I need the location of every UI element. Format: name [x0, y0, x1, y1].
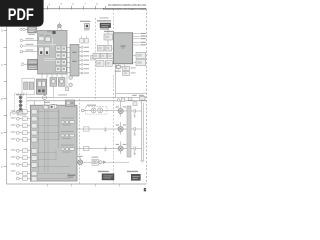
- cap C11: [24, 82, 28, 89]
- connector base box: [17, 111, 26, 115]
- output transistor Q602: [116, 122, 127, 135]
- IC2 pin stub wires: [67, 47, 81, 73]
- bus wire: [27, 97, 147, 99]
- IC501 top small parts: [52, 104, 57, 108]
- IC501 part number text: [68, 175, 76, 176]
- section divider (dashed): [113, 75, 115, 184]
- IC2 pin terminals: [81, 46, 83, 74]
- cap C12: [29, 82, 33, 89]
- speaker out terminals group A: [16, 110, 30, 114]
- svg-text:C: C: [1, 64, 3, 67]
- buffer U603: [105, 45, 112, 51]
- buffer U608: [105, 61, 112, 67]
- IC3 on top of IC1: [58, 22, 62, 30]
- driver group row 1: [61, 118, 74, 126]
- IC1 pin1 mark: [52, 31, 55, 34]
- ground: [133, 131, 136, 135]
- svg-text:D: D: [1, 98, 3, 101]
- wire row 3: [77, 148, 118, 150]
- wire Q10 to bus: [52, 86, 54, 97]
- section divider (dashed): [79, 99, 81, 184]
- label TO MAIN(1/2) left: [98, 171, 114, 180]
- mid cap: [104, 147, 106, 152]
- transistor Q621: [99, 161, 102, 164]
- buffer U602: [97, 45, 104, 51]
- memory IC602: [133, 52, 146, 58]
- jack block J7: [56, 66, 61, 71]
- transistor Q620: [77, 156, 83, 165]
- memory IC603: [133, 60, 146, 66]
- jack block J4: [61, 53, 66, 58]
- diode D5: [66, 87, 69, 91]
- transistor Q12: [69, 76, 73, 87]
- connector CN6 (dashed): [10, 93, 26, 116]
- jack block J5: [56, 60, 61, 65]
- IC501 internal wiring: [37, 105, 74, 179]
- pot VR2: [98, 108, 103, 113]
- speaker out terminal row 10: [16, 176, 30, 180]
- IC601 right pin wires: [133, 34, 140, 45]
- IC1 internal label: [47, 31, 52, 32]
- terminal net labels: [11, 110, 16, 171]
- audio block U4 outline: [22, 78, 34, 95]
- filter FL2: [28, 59, 38, 64]
- cap C602: [131, 127, 142, 131]
- fuse F1: [43, 93, 47, 100]
- page number: [144, 188, 146, 191]
- wire: [77, 161, 129, 163]
- relay RY620: [92, 157, 99, 166]
- IC501 left pad column: [31, 109, 37, 181]
- buffer U605: [100, 53, 106, 58]
- resistor R612: [84, 146, 89, 150]
- buffer U606: [107, 53, 113, 58]
- IC1 internal traces: [44, 38, 56, 61]
- IC501 top edge module: [65, 100, 74, 106]
- svg-text:RX-V463/HTR-6140/DSP-AX463 SCH: RX-V463/HTR-6140/DSP-AX463 SCHEMATIC DIA…: [103, 7, 146, 11]
- bottom row: standby circuit: [0, 0, 146, 191]
- IC1 main block: [38, 30, 67, 74]
- connector CN1 input row: [20, 26, 38, 35]
- IC2 pin net labels: [84, 47, 89, 74]
- regulator Q10: [50, 78, 57, 87]
- aux terminal: [13, 112, 16, 115]
- input comp: [81, 109, 84, 112]
- wire: [36, 29, 37, 32]
- section divider (dashed): [95, 18, 97, 99]
- wire: [24, 62, 28, 67]
- wire drops below IC1: [42, 74, 67, 90]
- relay RY2: [45, 47, 50, 55]
- IC501 top cluster: [44, 106, 48, 109]
- regulator Q11: [58, 78, 65, 87]
- input jack row 5: [21, 59, 37, 69]
- IC1 internal block: [39, 36, 44, 40]
- buffer U604: [93, 53, 99, 58]
- cap C603: [131, 147, 142, 151]
- jack block J6: [61, 60, 66, 65]
- pin chain: [20, 96, 22, 111]
- transformer T1: [36, 79, 46, 94]
- jack block J1: [56, 46, 61, 51]
- frame bottom border: [7, 183, 147, 185]
- wire: [23, 51, 38, 53]
- IC2 column block: [70, 44, 79, 76]
- frame left border: [6, 9, 8, 184]
- filter FL3: [28, 65, 38, 70]
- jack block J3: [56, 53, 61, 58]
- driver group row 3: [61, 145, 74, 153]
- cap C21: [80, 38, 84, 43]
- buffer U607: [96, 61, 104, 67]
- rail top components: [133, 102, 137, 106]
- mid cap: [104, 127, 106, 132]
- output transistor Q601: [116, 101, 127, 117]
- coupling box: [91, 55, 96, 60]
- IC501 power block: [30, 105, 77, 181]
- svg-text:PDF: PDF: [8, 6, 34, 24]
- IC601 DSP: [113, 33, 132, 64]
- jack block J2: [61, 46, 66, 51]
- filter FL1: [28, 26, 37, 33]
- frame grid ticks top: [48, 6, 106, 10]
- wire IC501 to bus: [35, 101, 45, 105]
- PDF badge: [0, 0, 44, 27]
- jack block J8: [61, 66, 66, 71]
- bus junction comps: [117, 99, 120, 102]
- ground rail bottom: [140, 160, 144, 163]
- IC1 internal trace: [38, 44, 52, 46]
- IC601 right pin labels: [140, 33, 145, 45]
- resistor R611: [84, 127, 89, 131]
- IC501 internal bus: [39, 108, 59, 173]
- cap C601: [131, 109, 142, 113]
- frame grid ticks bottom: [48, 184, 120, 186]
- header label box DIGITAL: [97, 17, 114, 32]
- wire: [25, 28, 27, 30]
- diode D620: [103, 161, 105, 164]
- crystal X601: [115, 64, 122, 72]
- bus wire: [27, 100, 147, 102]
- ground: [133, 113, 136, 117]
- pot VR1: [91, 108, 96, 113]
- wire: [23, 45, 38, 47]
- header small box: [80, 21, 91, 31]
- buffer U601: [104, 34, 112, 40]
- IC1 internal block: [45, 37, 50, 41]
- output transistor Q603: [116, 142, 127, 155]
- input jack row 4: [20, 49, 37, 52]
- wire label box to buffers: [108, 28, 114, 64]
- wire: [23, 39, 38, 41]
- frame grid ticks left: [4, 31, 7, 167]
- label TO MAIN(2/2) right: [127, 171, 140, 181]
- input jack row 3: [20, 44, 37, 48]
- power rail bus bar: [127, 106, 131, 157]
- input jack row 2: [20, 38, 37, 42]
- oscillator module: [123, 64, 136, 76]
- cap C22: [85, 38, 89, 43]
- wire digital supply: [116, 92, 147, 94]
- wire IC601 down to bus: [115, 64, 117, 98]
- frame top border: [7, 8, 147, 10]
- frame right border (dashed): [146, 9, 148, 184]
- section divider (dashed): [113, 9, 115, 33]
- wire: [81, 109, 118, 111]
- driver group row 2: [61, 131, 74, 139]
- relay RY1: [39, 47, 44, 55]
- power rail line: [142, 101, 144, 160]
- volume pots (dashed box): [81, 105, 118, 115]
- wire row 2: [77, 128, 118, 130]
- ground: [133, 151, 136, 155]
- speaker out terminals group B: [16, 149, 30, 153]
